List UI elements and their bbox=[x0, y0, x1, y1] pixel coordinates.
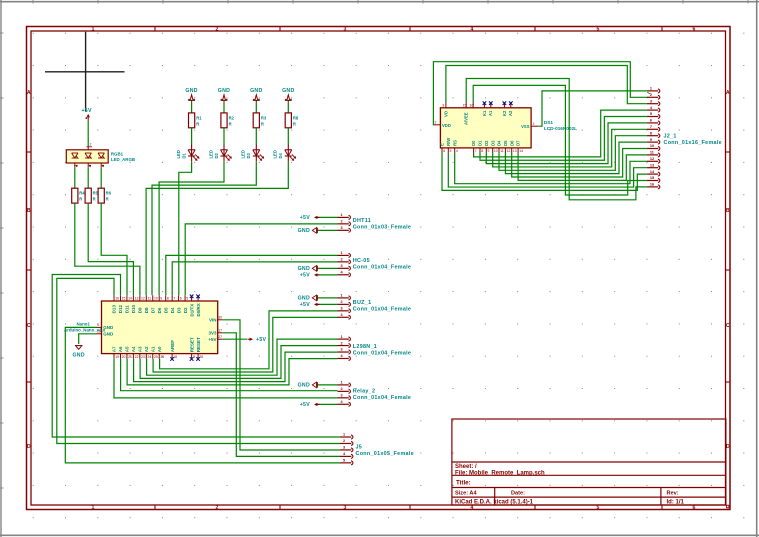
ground GND at DHT11 bbox=[298, 228, 318, 235]
svg-text:11: 11 bbox=[650, 151, 654, 155]
svg-text:6: 6 bbox=[180, 297, 182, 301]
svg-text:3: 3 bbox=[442, 103, 444, 107]
svg-text:GND: GND bbox=[72, 353, 84, 359]
svg-text:R: R bbox=[229, 122, 232, 127]
LED D2 bbox=[208, 144, 232, 161]
svg-text:3: 3 bbox=[344, 505, 347, 511]
svg-text:21: 21 bbox=[128, 355, 132, 359]
svg-text:A3: A3 bbox=[138, 346, 143, 352]
svg-text:LED_ARGB: LED_ARGB bbox=[111, 157, 135, 162]
wire LCD pin to J2 pin12 bbox=[455, 153, 647, 184]
svg-text:Id: 1/1: Id: 1/1 bbox=[667, 499, 685, 505]
svg-text:A2: A2 bbox=[508, 110, 513, 116]
wire +5V to DHT11 pin1 bbox=[317, 216, 338, 218]
svg-text:J2_1: J2_1 bbox=[664, 133, 677, 139]
svg-text:File: Mobile_Remote_Lamp.sch: File: Mobile_Remote_Lamp.sch bbox=[455, 471, 545, 477]
svg-text:RESET: RESET bbox=[189, 337, 194, 352]
svg-text:R2: R2 bbox=[229, 116, 235, 121]
svg-text:R/W: R/W bbox=[446, 138, 451, 146]
svg-text:22: 22 bbox=[135, 355, 139, 359]
wire GND to R1 bbox=[191, 102, 193, 114]
svg-text:D: D bbox=[726, 444, 730, 450]
svg-text:D7: D7 bbox=[150, 307, 155, 313]
svg-text:Arduino_Nano_v3.x: Arduino_Nano_v3.x bbox=[64, 328, 106, 333]
wire D5 to HC-05 pin1 bbox=[166, 255, 338, 295]
svg-text:A/VEE: A/VEE bbox=[464, 112, 469, 125]
svg-text:7: 7 bbox=[475, 149, 477, 153]
svg-text:A4: A4 bbox=[131, 346, 136, 352]
svg-text:D2: D2 bbox=[484, 140, 489, 146]
svg-text:LED: LED bbox=[208, 150, 213, 158]
svg-text:1: 1 bbox=[341, 294, 343, 298]
title block bbox=[452, 419, 726, 505]
svg-text:2: 2 bbox=[341, 300, 343, 304]
LED D4 bbox=[273, 144, 297, 161]
svg-text:4: 4 bbox=[471, 505, 474, 511]
svg-text:16: 16 bbox=[470, 103, 474, 107]
svg-text:2: 2 bbox=[341, 258, 343, 262]
resistor R5 bbox=[85, 188, 99, 203]
wire Nano1 GND1 to J5 pin5 bbox=[65, 327, 340, 463]
label DS1 bbox=[544, 120, 577, 131]
resistor R3 bbox=[253, 113, 267, 128]
wire D2 to DHT11 pin2 bbox=[185, 224, 337, 295]
svg-text:3: 3 bbox=[341, 348, 343, 352]
svg-text:A: A bbox=[27, 90, 31, 96]
power flag GND above R8 bbox=[282, 88, 294, 102]
svg-text:LCD-016N002L: LCD-016N002L bbox=[544, 126, 577, 131]
svg-text:R3: R3 bbox=[261, 116, 267, 121]
wire GND to DHT11 pin3 bbox=[317, 229, 338, 231]
svg-text:GND: GND bbox=[298, 228, 310, 234]
svg-text:9: 9 bbox=[488, 149, 490, 153]
svg-text:4: 4 bbox=[76, 164, 78, 168]
svg-text:K1: K1 bbox=[482, 110, 487, 116]
svg-text:K2: K2 bbox=[502, 110, 507, 116]
svg-text:GND: GND bbox=[218, 88, 230, 94]
svg-text:6: 6 bbox=[443, 149, 445, 153]
svg-text:1: 1 bbox=[341, 335, 343, 339]
svg-text:5: 5 bbox=[89, 164, 91, 168]
svg-text:16: 16 bbox=[115, 297, 119, 301]
svg-text:LED: LED bbox=[176, 150, 181, 158]
svg-text:14: 14 bbox=[519, 149, 523, 153]
svg-text:10: 10 bbox=[650, 144, 654, 148]
wire +5V to RGB1 bbox=[87, 120, 89, 146]
svg-text:25: 25 bbox=[154, 355, 158, 359]
svg-text:C: C bbox=[27, 323, 31, 329]
svg-text:11: 11 bbox=[148, 297, 152, 301]
svg-text:9: 9 bbox=[160, 297, 162, 301]
connector J L298N_1 bbox=[338, 335, 412, 361]
wire LCD pin to J2 pin6 bbox=[486, 123, 647, 164]
svg-text:DHT11: DHT11 bbox=[353, 218, 371, 224]
wire VIN to J5 pin3 bbox=[223, 320, 340, 450]
svg-text:23: 23 bbox=[141, 355, 145, 359]
svg-text:1: 1 bbox=[341, 381, 343, 385]
wire Nano1 +5V pin bbox=[223, 338, 247, 340]
wire A3 to L298N pin2 bbox=[140, 346, 337, 379]
label Nano1 bbox=[64, 322, 106, 333]
svg-text:D6: D6 bbox=[157, 307, 162, 313]
svg-text:A: A bbox=[726, 90, 730, 96]
svg-text:2: 2 bbox=[435, 121, 437, 125]
svg-text:R: R bbox=[261, 122, 264, 127]
svg-text:26: 26 bbox=[160, 355, 164, 359]
wire A0 to BUZ pin3 bbox=[160, 311, 338, 369]
wire VSS to J2 pin1 bbox=[538, 91, 650, 126]
svg-text:Relay_2: Relay_2 bbox=[353, 388, 375, 394]
svg-text:10: 10 bbox=[494, 149, 498, 153]
svg-text:D0: D0 bbox=[471, 140, 476, 146]
svg-text:D3: D3 bbox=[176, 307, 181, 313]
wire LED+ to J2 pin15 bbox=[473, 85, 647, 195]
svg-text:VSS: VSS bbox=[521, 124, 530, 129]
svg-text:11: 11 bbox=[500, 149, 504, 153]
wire GND to BUZ pin1 bbox=[317, 297, 338, 299]
wire 3V3 to J5 pin4 bbox=[223, 333, 340, 457]
svg-text:D4: D4 bbox=[170, 307, 175, 313]
svg-text:2: 2 bbox=[341, 387, 343, 391]
svg-text:19: 19 bbox=[115, 355, 119, 359]
svg-text:2: 2 bbox=[216, 505, 219, 511]
svg-text:13: 13 bbox=[650, 163, 654, 167]
wire LCD pin to J2 pin11 bbox=[518, 153, 647, 181]
svg-text:KiCad E.D.A. kicad (5.1.4)-1: KiCad E.D.A. kicad (5.1.4)-1 bbox=[455, 499, 534, 505]
connector J DHT11 bbox=[338, 213, 412, 232]
svg-text:D7: D7 bbox=[516, 140, 521, 146]
wire D4 to HC-05 pin2 bbox=[172, 262, 337, 295]
wire R5 to D10 bbox=[88, 203, 133, 295]
wire A4 to L298N pin3 bbox=[134, 352, 338, 382]
svg-text:A1: A1 bbox=[488, 110, 493, 116]
svg-text:D4: D4 bbox=[497, 140, 502, 146]
svg-text:+5V: +5V bbox=[81, 108, 92, 114]
wire D12 to J5 pin1 bbox=[52, 275, 340, 438]
svg-text:14: 14 bbox=[128, 297, 132, 301]
svg-text:D0/RX: D0/RX bbox=[196, 303, 201, 316]
ground GND at Relay_2 bbox=[298, 382, 318, 389]
svg-text:A6: A6 bbox=[118, 346, 123, 352]
svg-text:E: E bbox=[440, 143, 445, 146]
wire A1 to BUZ pin4 bbox=[153, 317, 337, 372]
svg-text:L298N_1: L298N_1 bbox=[353, 344, 377, 350]
wire LCD pin to J2 pin8 bbox=[499, 136, 647, 171]
wire D2 LED to D6 bbox=[159, 162, 224, 295]
svg-text:1: 1 bbox=[341, 251, 343, 255]
connector J BUZ_1 bbox=[338, 294, 412, 320]
wire LCD pin to J2 pin7 bbox=[493, 129, 647, 167]
svg-text:27: 27 bbox=[218, 335, 222, 339]
wire D3 LED to D7 bbox=[152, 162, 256, 295]
svg-text:+5V: +5V bbox=[208, 337, 216, 342]
svg-text:Sheet: /: Sheet: / bbox=[455, 464, 477, 470]
svg-text:15: 15 bbox=[650, 176, 654, 180]
svg-text:RS: RS bbox=[452, 140, 457, 146]
svg-text:GND: GND bbox=[298, 266, 310, 272]
wire Nano1 GND2 bbox=[79, 334, 97, 344]
LED RGB1 LED_ARGB bbox=[66, 142, 135, 168]
wire +5V to Relay pin4 bbox=[317, 403, 338, 405]
svg-text:D2: D2 bbox=[183, 307, 188, 313]
svg-text:D: D bbox=[27, 444, 31, 450]
svg-text:7: 7 bbox=[650, 125, 652, 129]
svg-text:D11: D11 bbox=[125, 305, 130, 314]
svg-text:B: B bbox=[726, 208, 730, 214]
svg-text:A0: A0 bbox=[157, 346, 162, 352]
svg-text:D1: D1 bbox=[181, 152, 186, 158]
svg-text:D1: D1 bbox=[478, 140, 483, 146]
svg-text:Conn_01x04_Female: Conn_01x04_Female bbox=[353, 395, 411, 401]
wire LCD pin to J2 pin14 bbox=[442, 153, 647, 191]
wire R3 to D3 bbox=[255, 128, 257, 145]
svg-text:5: 5 bbox=[186, 297, 188, 301]
wire LCD pin to J2 pin10 bbox=[512, 149, 647, 178]
power symbol +5V at BUZ_1 bbox=[300, 302, 320, 308]
svg-text:1: 1 bbox=[650, 87, 652, 91]
svg-text:D12: D12 bbox=[118, 305, 123, 314]
svg-text:3: 3 bbox=[341, 264, 343, 268]
op-amp U Nano1 Arduino_Nano_v3.x bbox=[97, 295, 223, 361]
wire +5V to HC-05 pin4 bbox=[317, 274, 338, 276]
svg-text:GND: GND bbox=[185, 88, 197, 94]
svg-text:J5: J5 bbox=[356, 444, 363, 450]
svg-text:D1/TX: D1/TX bbox=[189, 304, 194, 317]
svg-text:2: 2 bbox=[341, 220, 343, 224]
connector J Relay_2 bbox=[338, 381, 412, 407]
svg-text:VO: VO bbox=[443, 110, 448, 117]
wire GND to R3 bbox=[255, 102, 257, 114]
svg-text:AREF: AREF bbox=[170, 340, 175, 353]
svg-text:Rev:: Rev: bbox=[667, 490, 679, 496]
svg-text:2: 2 bbox=[90, 142, 92, 146]
wire A7 to Relay pin3 bbox=[114, 359, 338, 398]
svg-text:5: 5 bbox=[450, 149, 452, 153]
wire A2 to L298N pin1 bbox=[147, 339, 338, 375]
svg-text:3V3: 3V3 bbox=[208, 331, 217, 336]
svg-text:RESET: RESET bbox=[196, 337, 201, 352]
svg-text:VIN: VIN bbox=[209, 318, 217, 323]
svg-text:D3: D3 bbox=[246, 152, 251, 158]
svg-text:9: 9 bbox=[650, 138, 652, 142]
svg-text:12: 12 bbox=[141, 297, 145, 301]
wire LCD pin to J2 pin4 bbox=[474, 110, 647, 157]
svg-text:8: 8 bbox=[167, 297, 169, 301]
svg-text:A1: A1 bbox=[150, 346, 155, 352]
ground GND at HC-05 bbox=[298, 266, 318, 273]
wire RGB1 to R4 bbox=[74, 167, 76, 188]
svg-text:+5V: +5V bbox=[300, 273, 311, 279]
svg-text:D2: D2 bbox=[214, 152, 219, 158]
svg-text:8: 8 bbox=[650, 131, 652, 135]
svg-text:GND: GND bbox=[298, 383, 310, 389]
svg-text:2: 2 bbox=[343, 439, 345, 443]
svg-text:Conn_01x16_Female: Conn_01x16_Female bbox=[664, 140, 722, 146]
svg-text:2: 2 bbox=[341, 341, 343, 345]
svg-text:Date:: Date: bbox=[511, 490, 525, 496]
LED D1 bbox=[176, 144, 200, 161]
power flag GND above R3 bbox=[250, 88, 262, 102]
power symbol +5V at HC-05 bbox=[300, 273, 320, 279]
svg-text:3: 3 bbox=[341, 394, 343, 398]
svg-text:LED: LED bbox=[273, 150, 278, 158]
svg-text:Conn_01x05_Female: Conn_01x05_Female bbox=[356, 451, 414, 457]
svg-text:1: 1 bbox=[92, 505, 95, 511]
svg-text:D5: D5 bbox=[503, 140, 508, 146]
svg-text:Nano1: Nano1 bbox=[77, 322, 91, 327]
svg-text:D9: D9 bbox=[138, 307, 143, 313]
svg-text:5: 5 bbox=[597, 26, 600, 32]
wire R4 to D9 bbox=[75, 203, 140, 295]
wire +5V to BUZ pin2 bbox=[317, 303, 338, 305]
wire R2 to D2 bbox=[223, 128, 225, 145]
svg-text:+5V: +5V bbox=[300, 302, 311, 308]
svg-text:12: 12 bbox=[650, 157, 654, 161]
power symbol +5V at DHT11 bbox=[300, 215, 320, 221]
svg-text:C: C bbox=[726, 323, 730, 329]
wire VO to J2 pin3 bbox=[446, 66, 647, 104]
wire R6 to D11 bbox=[101, 203, 127, 295]
svg-text:R: R bbox=[79, 197, 82, 202]
svg-text:15: 15 bbox=[463, 103, 467, 107]
power symbol +5V right of Nano1 bbox=[248, 337, 267, 343]
svg-text:A7: A7 bbox=[112, 346, 117, 352]
svg-text:5: 5 bbox=[343, 459, 345, 463]
svg-text:GND: GND bbox=[250, 88, 262, 94]
power symbol +5V at Relay_2 bbox=[300, 402, 320, 408]
connector J5 bbox=[340, 433, 414, 465]
svg-text:15: 15 bbox=[122, 297, 126, 301]
wire GND to HC-05 pin3 bbox=[317, 267, 338, 269]
svg-text:3: 3 bbox=[341, 226, 343, 230]
svg-text:RGB1: RGB1 bbox=[111, 151, 124, 156]
svg-text:BUZ_1: BUZ_1 bbox=[353, 300, 372, 306]
connector J2_1 bbox=[647, 87, 722, 189]
svg-text:A5: A5 bbox=[125, 346, 130, 352]
svg-text:17: 17 bbox=[218, 329, 222, 333]
svg-text:1: 1 bbox=[341, 213, 343, 217]
svg-text:1: 1 bbox=[533, 122, 535, 126]
svg-text:3: 3 bbox=[343, 446, 345, 450]
resistor R1 bbox=[189, 113, 203, 128]
svg-text:8: 8 bbox=[481, 149, 483, 153]
resistor R6 bbox=[98, 188, 112, 203]
power symbol +5V above RGB1 bbox=[81, 108, 92, 120]
svg-text:HC-05: HC-05 bbox=[353, 258, 370, 264]
op-amp U DS1 LCD-016N002L bbox=[434, 101, 538, 153]
svg-text:20: 20 bbox=[122, 355, 126, 359]
svg-text:3: 3 bbox=[650, 99, 652, 103]
svg-text:D6: D6 bbox=[509, 140, 514, 146]
svg-text:R: R bbox=[106, 197, 109, 202]
svg-text:3: 3 bbox=[341, 307, 343, 311]
svg-text:3: 3 bbox=[344, 26, 347, 32]
svg-text:+5V: +5V bbox=[256, 337, 267, 343]
wire R1 to D1 bbox=[191, 128, 193, 145]
svg-text:D8: D8 bbox=[144, 307, 149, 313]
svg-text:1: 1 bbox=[343, 433, 345, 437]
svg-text:4: 4 bbox=[471, 26, 474, 32]
wire D4 LED to D8 bbox=[146, 162, 288, 295]
wire R8 to D4 bbox=[287, 128, 289, 145]
wire LCD pin to J2 pin5 bbox=[480, 117, 647, 161]
wire RGB1 to R6 bbox=[100, 167, 102, 188]
svg-text:DS1: DS1 bbox=[544, 120, 554, 125]
svg-text:6: 6 bbox=[693, 26, 696, 32]
connector J HC-05 bbox=[338, 251, 412, 277]
svg-text:13: 13 bbox=[135, 297, 139, 301]
svg-text:12: 12 bbox=[507, 149, 511, 153]
resistor R8 bbox=[285, 113, 299, 128]
svg-text:R1: R1 bbox=[196, 116, 202, 121]
svg-text:7: 7 bbox=[173, 297, 175, 301]
LED D3 bbox=[241, 144, 265, 161]
ground GND at BUZ_1 bbox=[298, 295, 318, 302]
wire GND to Relay pin1 bbox=[317, 384, 338, 386]
resistor R2 bbox=[221, 113, 235, 128]
svg-text:10: 10 bbox=[154, 297, 158, 301]
svg-text:D13: D13 bbox=[112, 305, 117, 314]
svg-text:30: 30 bbox=[218, 316, 222, 320]
svg-text:4: 4 bbox=[456, 149, 458, 153]
resistor R4 bbox=[72, 188, 86, 203]
svg-text:1: 1 bbox=[92, 26, 95, 32]
svg-text:D10: D10 bbox=[131, 305, 136, 314]
svg-text:+5V: +5V bbox=[300, 402, 311, 408]
ground GND below Nano1 bbox=[72, 346, 84, 359]
wire D1 LED to D3 bbox=[179, 162, 192, 295]
svg-text:B: B bbox=[27, 208, 31, 214]
svg-text:6: 6 bbox=[650, 119, 652, 123]
svg-text:R: R bbox=[93, 197, 96, 202]
svg-text:Conn_01x03_Female: Conn_01x03_Female bbox=[353, 225, 411, 231]
svg-text:6: 6 bbox=[102, 164, 104, 168]
wire LCD pin to J2 pin13 bbox=[448, 153, 647, 188]
svg-text:GND: GND bbox=[298, 296, 310, 302]
power flag GND above R1 bbox=[185, 88, 197, 102]
svg-text:A2: A2 bbox=[144, 346, 149, 352]
svg-text:2: 2 bbox=[216, 26, 219, 32]
svg-text:GND: GND bbox=[282, 88, 294, 94]
svg-text:Conn_01x04_Female: Conn_01x04_Female bbox=[353, 265, 411, 271]
svg-text:24: 24 bbox=[148, 355, 152, 359]
svg-text:Conn_01x04_Female: Conn_01x04_Female bbox=[353, 307, 411, 313]
svg-text:5: 5 bbox=[597, 505, 600, 511]
svg-text:R: R bbox=[293, 122, 296, 127]
svg-text:R4: R4 bbox=[79, 191, 85, 196]
svg-text:R8: R8 bbox=[293, 116, 299, 121]
svg-text:6: 6 bbox=[693, 505, 696, 511]
svg-text:VDD: VDD bbox=[442, 123, 451, 128]
svg-text:D3: D3 bbox=[490, 140, 495, 146]
svg-text:R6: R6 bbox=[106, 191, 112, 196]
wire D13 to J5 pin2 bbox=[57, 278, 340, 443]
svg-text:LED: LED bbox=[241, 150, 246, 158]
wire A6 to Relay pin2 bbox=[121, 359, 338, 391]
power flag GND above R2 bbox=[218, 88, 230, 102]
svg-text:4: 4 bbox=[97, 323, 99, 327]
wire LCD pin to J2 pin9 bbox=[505, 142, 647, 174]
svg-text:D5: D5 bbox=[163, 307, 168, 313]
wire A5 to L298N pin4 bbox=[127, 359, 337, 385]
wire LED- to J2 pin16 bbox=[466, 79, 647, 200]
svg-text:Title:: Title: bbox=[456, 479, 471, 486]
svg-text:R: R bbox=[196, 122, 199, 127]
cursor crosshair bbox=[45, 32, 125, 112]
svg-text:D4: D4 bbox=[278, 152, 283, 158]
svg-text:Conn_01x04_Female: Conn_01x04_Female bbox=[353, 351, 411, 357]
wire VDD to J2 pin2 bbox=[433, 62, 647, 125]
